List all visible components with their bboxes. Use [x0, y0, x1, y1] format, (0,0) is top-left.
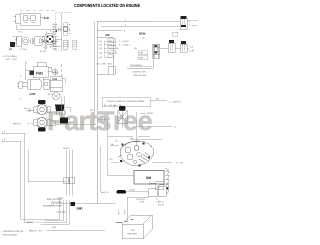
bracket box P62	[138, 56, 148, 60]
svg-text:1,4 (B 4 (B: 1,4 (B 4 (B	[56, 211, 66, 214]
svg-text:4T 364: 4T 364	[20, 48, 27, 51]
svg-text:12V: 12V	[131, 229, 135, 232]
spark coil upper	[34, 100, 51, 115]
svg-text:m — (a: m — (a	[176, 162, 184, 165]
bracket right of FS1b	[63, 79, 66, 84]
bracket above terminal	[13, 37, 17, 42]
svg-text:L W —(R)— RLU: L W —(R)— RLU	[96, 63, 112, 66]
relay A-R	[14, 14, 41, 26]
FSM dark module	[55, 105, 65, 112]
svg-text:(G)4-: (G)4-	[53, 48, 58, 51]
engine boundary dashed	[56, 13, 73, 51]
svg-text:AT GA: AT GA	[40, 50, 47, 53]
left riser 2	[20, 141, 22, 219]
AR module dark	[60, 118, 68, 124]
svg-text:1 (BA 1 (: 1 (BA 1 (	[156, 201, 164, 204]
svg-text:(T P(L: (T P(L	[139, 201, 145, 204]
note box ROUTE WIRES	[102, 98, 150, 107]
label A-R	[40, 17, 43, 19]
junction box right of lower coil	[51, 121, 56, 126]
svg-text:(6) TB: (6) TB	[147, 112, 153, 115]
svg-text:B+((—1/: B+((—1/	[101, 191, 109, 194]
sender drop	[135, 112, 137, 146]
svg-text:17JT1 1T3644: 17JT1 1T3644	[3, 55, 17, 58]
fuse F1	[117, 190, 127, 193]
wire to stator harness	[28, 150, 66, 182]
pin labels lower group	[53, 40, 71, 51]
svg-text:A-R: A-R	[44, 16, 50, 20]
svg-text:1 (B A (TR GA(T: 1 (B A (TR GA(T	[2, 234, 18, 237]
BCM drop wire 2	[100, 146, 102, 192]
svg-text:((J: ((J	[100, 40, 102, 43]
svg-text:1-: 1-	[69, 23, 71, 26]
wires joining connectors	[163, 48, 190, 50]
wire 2	[101, 26, 180, 28]
harness verticals	[66, 150, 72, 196]
left small text block	[3, 55, 17, 61]
wire FSM step	[67, 108, 71, 113]
left riser hooks	[25, 222, 34, 224]
plug rings	[22, 37, 29, 44]
boundary line	[61, 13, 63, 50]
svg-text:J — (AP-12): J — (AP-12)	[169, 100, 181, 103]
pointer and note	[155, 198, 159, 202]
svg-text:1 4 8 6: 1 4 8 6	[57, 197, 64, 200]
svg-text:TY 1: TY 1	[18, 31, 23, 34]
svg-text:DO 6 — 4: DO 6 — 4	[108, 52, 118, 55]
battery terminal marks	[118, 210, 126, 214]
wire from right connector	[160, 48, 163, 50]
valve fitting	[43, 80, 49, 90]
inline connectors row right of BCM	[157, 47, 160, 52]
battery wire	[127, 197, 149, 221]
dark wing	[30, 71, 35, 76]
svg-text:2 (EA P(1: 2 (EA P(1	[136, 198, 145, 201]
svg-text:4 (OA-P) 1 (P): 4 (OA-P) 1 (P)	[132, 71, 146, 74]
wire 3	[101, 30, 122, 32]
node dot	[55, 30, 57, 32]
svg-text:NC: NC	[189, 20, 193, 23]
long wire left upper	[2, 132, 25, 134]
svg-text:ROUTE OVER OF CONTROL PANEL: ROUTE OVER OF CONTROL PANEL	[108, 100, 146, 103]
svg-text:(a (P: (a (P	[190, 50, 195, 53]
svg-text:3-: 3-	[69, 29, 71, 32]
connector CN1	[180, 16, 187, 30]
wire flywheel to boundary	[58, 38, 62, 40]
solenoid small box	[149, 189, 158, 197]
svg-text:m: m	[174, 126, 176, 129]
engine right wire	[152, 162, 172, 164]
wire 2L to connector	[150, 182, 156, 184]
solenoid 3d box	[158, 185, 168, 197]
connector J2	[168, 40, 175, 52]
svg-text:MC: MC	[106, 33, 110, 37]
oil pressure sender	[118, 106, 128, 128]
oil filter LOF	[17, 80, 41, 90]
svg-text:(TO4 6MP(L): (TO4 6MP(L)	[130, 64, 142, 67]
wire to upper coil	[26, 109, 34, 111]
svg-text:DR(x)—(4): DR(x)—(4)	[108, 47, 118, 50]
svg-text:BCM: BCM	[139, 32, 146, 36]
2L box	[156, 182, 164, 190]
pin column lower connectors	[63, 40, 77, 49]
svg-text:4CF — 4(1): 4CF — 4(1)	[6, 58, 17, 61]
svg-text:BATTERY: BATTERY	[128, 233, 138, 236]
pin leader lines	[104, 41, 107, 57]
bracket box P05	[138, 51, 148, 55]
svg-text:(W: (W	[24, 107, 27, 110]
svg-text:(FU (L): (FU (L)	[158, 204, 165, 207]
long wire mid right	[136, 126, 172, 128]
svg-text:(1): (1)	[142, 37, 145, 40]
engine assembly	[118, 141, 154, 166]
svg-text:W B G: W B G	[63, 147, 70, 150]
ignition plug row: dark terminal	[10, 42, 15, 47]
strip dark plug	[71, 202, 76, 206]
pin column upper-right connectors	[64, 23, 71, 35]
BCM right connector	[153, 44, 160, 58]
svg-text:L (TD): L (TD)	[129, 189, 135, 192]
engine top drop	[136, 139, 138, 143]
wire 15A	[97, 120, 134, 176]
bracket box above J2	[173, 32, 178, 36]
wire relay down-left then right	[16, 25, 62, 29]
svg-text:SPK PL (: SPK PL (	[13, 123, 22, 126]
TB wire 2	[140, 112, 146, 114]
svg-text:— SERVICED FOR (TR: — SERVICED FOR (TR	[1, 230, 24, 233]
svg-text:J — (1)-07: J — (1)-07	[119, 40, 130, 43]
wires FSM to AR	[61, 97, 64, 118]
svg-text:(TF): (TF)	[52, 226, 56, 229]
coil bars	[31, 38, 34, 45]
svg-text:6 — 6 (NL-): 6 — 6 (NL-)	[119, 44, 130, 47]
BCM box	[97, 22, 153, 204]
wire B	[130, 139, 162, 141]
long wire left lower	[2, 140, 21, 142]
text ARE LOCATED block	[43, 198, 63, 207]
strip ticks	[60, 200, 70, 207]
svg-text:(AF)T3 — B —: (AF)T3 — B —	[29, 230, 44, 233]
svg-text:SM1: SM1	[77, 207, 84, 211]
svg-text:2 J(: 2 J(	[190, 46, 194, 49]
battery 12V	[122, 215, 152, 239]
left riser 1	[24, 133, 26, 223]
bottom bus wire	[46, 230, 105, 232]
FSM pins	[57, 111, 66, 115]
small eyelet	[43, 40, 46, 43]
engine left stubs	[110, 146, 119, 163]
pump circle	[52, 92, 59, 99]
wire to connector top	[153, 21, 180, 23]
ground	[44, 45, 48, 50]
svg-text:FB1: FB1	[36, 72, 43, 76]
spark coil lower	[34, 118, 51, 132]
pin numbers right column	[69, 23, 71, 32]
svg-text:(4 ( 1: (4 ( 1	[90, 109, 96, 112]
BCM pin rows	[96, 40, 137, 66]
BCM left drop wire	[93, 22, 95, 125]
pin column upper text	[53, 23, 59, 34]
side fitting	[48, 64, 62, 77]
wire spark line right	[55, 124, 96, 126]
svg-text:COMPONENTS LOCATED ON ENGINE: COMPONENTS LOCATED ON ENGINE	[74, 3, 140, 8]
right vertical connector	[165, 168, 170, 188]
svg-text:LOW OIL PRE: LOW OIL PRE	[133, 74, 147, 77]
fuse box in BCM	[108, 67, 115, 75]
wire ground row to boundary	[50, 46, 62, 48]
TB wire top	[150, 100, 167, 102]
connector J3	[180, 41, 187, 52]
svg-text:NEG J — C —: NEG J — C —	[27, 221, 42, 224]
fuel solenoid FS1a	[26, 63, 48, 80]
leader to FS1	[25, 61, 27, 80]
plug connector	[15, 37, 22, 47]
pin code boxes	[108, 39, 116, 58]
strip bus wire	[55, 203, 117, 205]
coil body	[35, 37, 43, 46]
note row above relay	[20, 10, 55, 12]
flywheel magneto	[41, 30, 57, 48]
battery terminals	[116, 220, 134, 223]
junction at dashed line	[59, 27, 68, 32]
svg-text:LOF: LOF	[30, 92, 36, 96]
svg-text:(K): (K)	[134, 47, 137, 50]
fuel solenoid FS1b	[50, 77, 62, 92]
svg-text:2-: 2-	[69, 27, 71, 30]
wire fuse to box	[126, 191, 148, 193]
svg-text:SM: SM	[146, 176, 151, 180]
svg-text:FS1: FS1	[53, 78, 58, 81]
starter SM box	[134, 171, 164, 185]
staircase wires to labels	[41, 207, 70, 225]
harness junction blocks	[64, 178, 69, 184]
